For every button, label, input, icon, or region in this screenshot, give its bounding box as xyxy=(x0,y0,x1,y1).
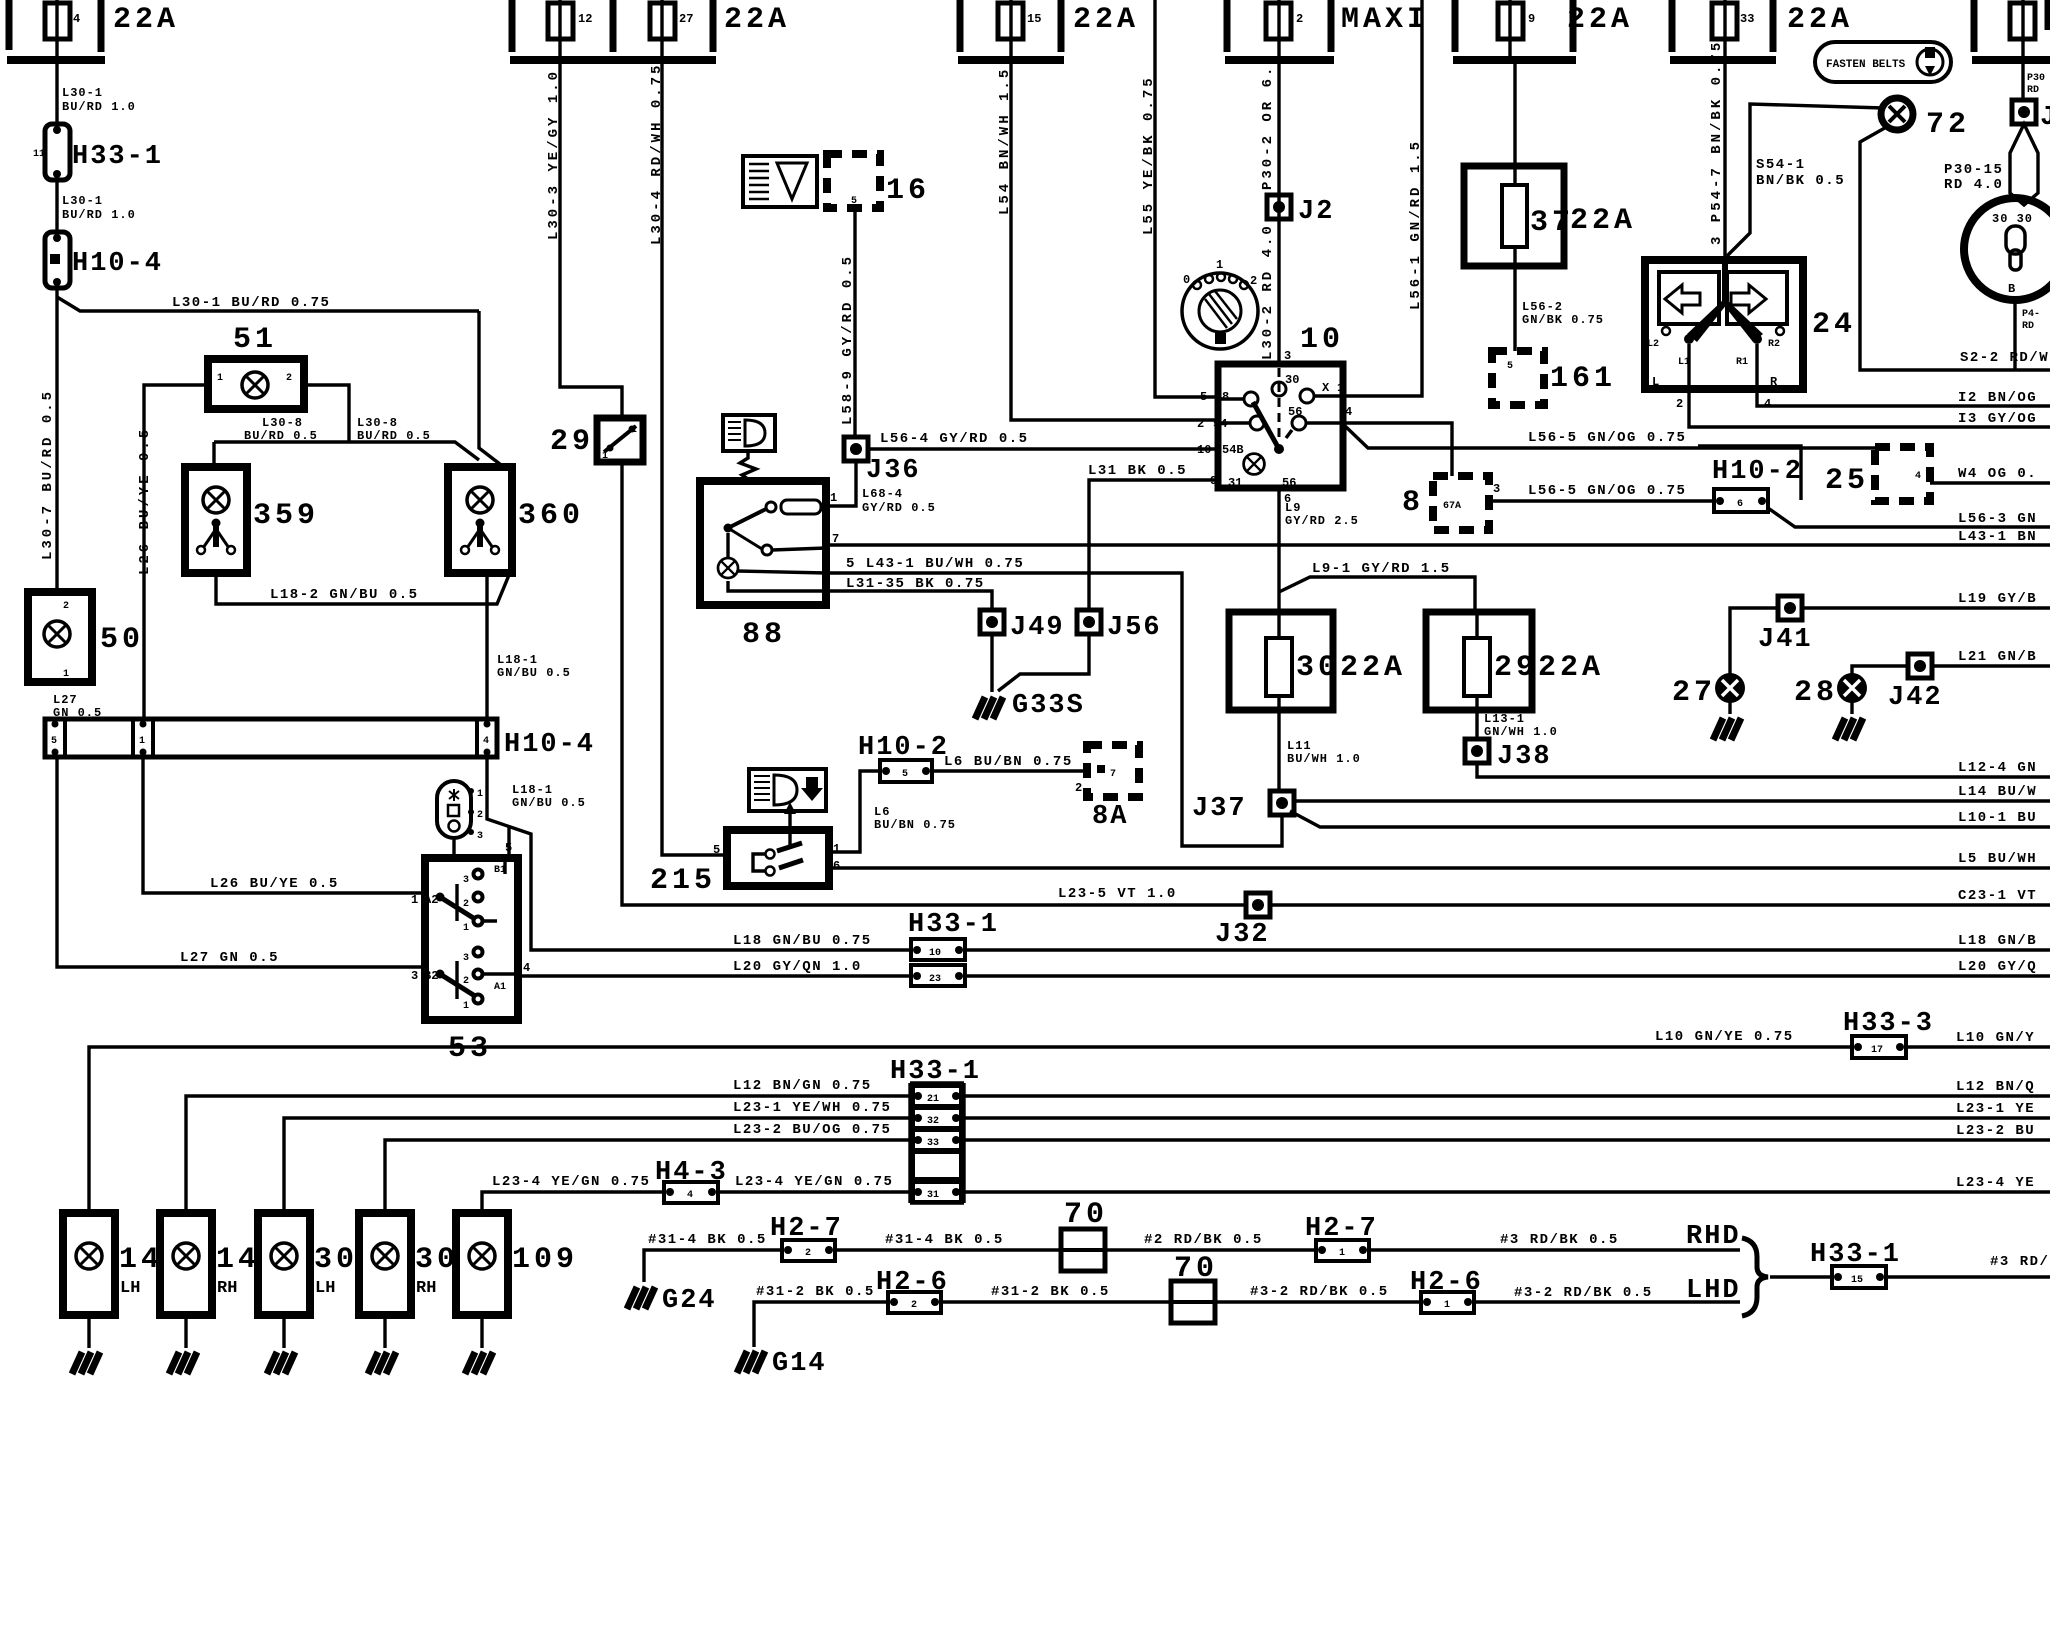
svg-text:4: 4 xyxy=(73,12,80,26)
svg-text:1: 1 xyxy=(63,669,69,680)
svg-text:L5 BU/WH: L5 BU/WH xyxy=(1958,851,2037,867)
svg-text:3: 3 xyxy=(411,969,418,983)
svg-text:L56-5 GN/OG 0.75: L56-5 GN/OG 0.75 xyxy=(1528,430,1686,446)
wire fuse15 to pin54 xyxy=(1011,60,1218,420)
svg-text:30: 30 xyxy=(1296,651,1340,685)
svg-text:#2 RD/BK 0.5: #2 RD/BK 0.5 xyxy=(1144,1232,1263,1248)
svg-text:4: 4 xyxy=(687,1190,693,1201)
svg-text:23: 23 xyxy=(929,974,941,985)
svg-text:L27: L27 xyxy=(53,693,78,707)
svg-text:L18-1: L18-1 xyxy=(512,783,553,797)
svg-text:L6: L6 xyxy=(874,805,890,819)
svg-text:R: R xyxy=(1770,375,1778,389)
connector 16 xyxy=(827,154,930,208)
switch 215 xyxy=(650,830,840,898)
svg-text:RD: RD xyxy=(2027,85,2039,96)
bus L12-4 from J38 xyxy=(1477,763,2050,777)
svg-text:L9-1 GY/RD 1.5: L9-1 GY/RD 1.5 xyxy=(1312,561,1451,577)
lamp 50 xyxy=(28,592,144,682)
fuse box 30 22A xyxy=(1229,612,1406,793)
svg-text:6: 6 xyxy=(833,859,840,873)
fuse bracket 9 22A xyxy=(1453,0,1633,60)
svg-text:L19 GY/B: L19 GY/B xyxy=(1958,591,2037,607)
svg-text:2: 2 xyxy=(463,976,469,987)
svg-text:J36: J36 xyxy=(866,456,921,486)
svg-text:109: 109 xyxy=(512,1243,578,1277)
svg-text:W4 OG 0.: W4 OG 0. xyxy=(1958,466,2037,482)
svg-text:RHD: RHD xyxy=(1686,1222,1741,1252)
wire 25 to W4 bus xyxy=(1930,481,2050,484)
connector H2-7 a xyxy=(770,1214,843,1261)
svg-text:B: B xyxy=(2008,282,2016,296)
svg-text:3: 3 xyxy=(1284,349,1291,363)
wire 72 left to 24 pin3 xyxy=(1727,104,1884,256)
wire L26 to switch 53 xyxy=(143,757,425,893)
bus L20 right xyxy=(965,974,2050,977)
svg-text:5: 5 xyxy=(1507,361,1513,372)
svg-text:L23-4 YE: L23-4 YE xyxy=(1956,1175,2035,1191)
svg-text:5: 5 xyxy=(851,196,857,207)
brace RHD/LHD xyxy=(1742,1238,1768,1316)
junction J36 xyxy=(844,437,868,461)
svg-text:22A: 22A xyxy=(113,3,179,37)
svg-text:54B: 54B xyxy=(1222,443,1244,457)
svg-text:5 L43-1 BU/WH 0.75: 5 L43-1 BU/WH 0.75 xyxy=(846,556,1024,572)
svg-text:L56-5 GN/OG 0.75: L56-5 GN/OG 0.75 xyxy=(1528,483,1686,499)
wire J49 to ground xyxy=(990,634,993,692)
svg-text:#31-2 BK 0.5: #31-2 BK 0.5 xyxy=(991,1284,1110,1300)
wire fuse4 down xyxy=(55,60,58,124)
svg-text:2: 2 xyxy=(1296,12,1303,26)
svg-text:#3-2 RD/BK 0.5: #3-2 RD/BK 0.5 xyxy=(1250,1284,1389,1300)
svg-text:L30-1: L30-1 xyxy=(62,194,103,208)
lamp 14 LH xyxy=(63,1213,163,1374)
wire 359 bottom to 360 xyxy=(216,573,509,604)
wire P54-7 down to 24 xyxy=(1723,60,1726,260)
svg-text:S54-1: S54-1 xyxy=(1756,157,1806,173)
svg-text:RD 4.0: RD 4.0 xyxy=(1944,177,2003,193)
svg-text:3 P54-7 BN/BK 0.75: 3 P54-7 BN/BK 0.75 xyxy=(1709,40,1725,245)
wire 88 bottom to J49 xyxy=(826,591,992,611)
junction J3 xyxy=(2012,100,2036,124)
svg-text:LH: LH xyxy=(120,1279,140,1298)
lamp 27 xyxy=(1730,608,1778,674)
svg-text:GN/BU 0.5: GN/BU 0.5 xyxy=(512,796,586,810)
up arrow xyxy=(788,812,791,830)
wire 16 to J36 xyxy=(853,208,856,438)
fuse box 37 22A xyxy=(1513,60,1516,351)
svg-text:2: 2 xyxy=(463,899,469,910)
svg-text:L31-35 BK 0.75: L31-35 BK 0.75 xyxy=(846,576,985,592)
label L30-1 b xyxy=(55,180,58,232)
svg-text:L30-1: L30-1 xyxy=(62,86,103,100)
ignition switch B xyxy=(1964,198,2050,300)
ground xyxy=(1713,718,1741,740)
svg-text:L26 BU/YE 0.5: L26 BU/YE 0.5 xyxy=(210,876,339,892)
bus L18 right xyxy=(965,948,2050,951)
connector H33-1 pins 10/23 xyxy=(908,910,999,986)
svg-text:L10 GN/Y: L10 GN/Y xyxy=(1956,1030,2035,1046)
svg-text:161: 161 xyxy=(1550,362,1616,396)
connector H33-1 lower xyxy=(890,1057,981,1203)
svg-text:22A: 22A xyxy=(1073,3,1139,37)
svg-text:GY/RD 2.5: GY/RD 2.5 xyxy=(1285,514,1359,528)
diode box 29 xyxy=(550,418,643,462)
svg-text:1: 1 xyxy=(1337,381,1344,395)
svg-text:17: 17 xyxy=(1871,1045,1883,1056)
lamp 360 xyxy=(448,467,584,573)
svg-text:360: 360 xyxy=(518,499,584,533)
svg-text:8: 8 xyxy=(1402,486,1424,520)
svg-text:37: 37 xyxy=(1530,206,1574,240)
svg-text:2: 2 xyxy=(477,810,483,821)
svg-text:25: 25 xyxy=(1825,464,1869,498)
svg-text:72: 72 xyxy=(1926,108,1970,142)
connector H2-6 a xyxy=(876,1268,949,1313)
svg-text:L68-4: L68-4 xyxy=(862,487,903,501)
svg-text:5: 5 xyxy=(713,843,720,857)
svg-text:RH: RH xyxy=(416,1279,436,1298)
junction J56 xyxy=(1077,610,1101,634)
svg-text:L20 GY/QN 1.0: L20 GY/QN 1.0 xyxy=(733,959,862,975)
svg-text:51: 51 xyxy=(233,323,277,357)
svg-text:5: 5 xyxy=(51,736,57,747)
wire lamp14RH to ground xyxy=(184,1315,187,1348)
svg-text:BU/RD 1.0: BU/RD 1.0 xyxy=(62,208,136,222)
svg-text:L56-3 GN: L56-3 GN xyxy=(1958,511,2037,527)
svg-text:H33-1: H33-1 xyxy=(72,142,163,172)
ground xyxy=(267,1352,295,1374)
wire H10-4 pin4 down to 53 / H33-1 xyxy=(487,757,911,950)
svg-text:21: 21 xyxy=(927,1094,939,1105)
turn signal switch 24 xyxy=(1645,260,1856,389)
svg-text:15: 15 xyxy=(1027,12,1041,26)
svg-text:50: 50 xyxy=(100,623,144,657)
wire pin56 diagonal to L56-5 bus xyxy=(1345,426,1875,448)
connector 8A xyxy=(1075,745,1139,832)
svg-text:LH: LH xyxy=(315,1279,335,1298)
svg-text:J37: J37 xyxy=(1192,794,1247,824)
junction J37 xyxy=(1270,791,1294,815)
svg-text:1: 1 xyxy=(602,451,608,462)
bus 215 pin6 L5 xyxy=(829,866,2050,869)
wire L31 from switch10 through J56 xyxy=(998,480,1218,691)
svg-text:J41: J41 xyxy=(1758,625,1813,655)
svg-text:22A: 22A xyxy=(1787,3,1853,37)
svg-text:22A: 22A xyxy=(1570,204,1636,238)
fuse bracket 33 22A xyxy=(1670,0,1853,60)
svg-text:33: 33 xyxy=(927,1138,939,1149)
svg-text:H10-2: H10-2 xyxy=(1712,457,1803,487)
ground xyxy=(368,1352,396,1374)
svg-text:L23-1 YE: L23-1 YE xyxy=(1956,1101,2035,1117)
svg-text:10: 10 xyxy=(929,948,941,959)
bus L10-1 from J37 xyxy=(1290,811,2050,827)
svg-text:12: 12 xyxy=(578,12,592,26)
svg-text:27: 27 xyxy=(1672,676,1716,710)
svg-text:10: 10 xyxy=(1300,323,1344,357)
svg-text:I3 GY/OG: I3 GY/OG xyxy=(1958,411,2037,427)
svg-text:5: 5 xyxy=(902,769,908,780)
lamp 14 RH xyxy=(160,1213,260,1374)
svg-text:30: 30 xyxy=(1285,373,1299,387)
svg-text:L23-1 YE/WH 0.75: L23-1 YE/WH 0.75 xyxy=(733,1100,891,1116)
svg-text:#31-2 BK 0.5: #31-2 BK 0.5 xyxy=(756,1284,875,1300)
svg-text:H10-4: H10-4 xyxy=(72,249,163,279)
svg-text:1: 1 xyxy=(477,789,483,800)
svg-text:X: X xyxy=(1322,381,1330,395)
svg-text:G33S: G33S xyxy=(1012,691,1085,721)
svg-text:22A: 22A xyxy=(1538,651,1604,685)
wire 51 pin2 to 359/360 xyxy=(214,385,479,467)
svg-text:#3-2 RD/BK 0.5: #3-2 RD/BK 0.5 xyxy=(1514,1285,1653,1301)
ground xyxy=(169,1352,197,1374)
svg-text:1: 1 xyxy=(139,736,145,747)
riser wires xyxy=(89,1047,1852,1213)
connector H2-6 b xyxy=(1410,1268,1483,1313)
connector H33-1 top xyxy=(33,124,163,180)
svg-text:1: 1 xyxy=(1216,258,1223,272)
svg-text:30: 30 xyxy=(314,1243,358,1277)
svg-text:#31-4 BK 0.5: #31-4 BK 0.5 xyxy=(885,1232,1004,1248)
svg-text:L10-1 BU: L10-1 BU xyxy=(1958,810,2037,826)
connector 161 xyxy=(1492,351,1616,405)
svg-text:J49: J49 xyxy=(1010,613,1065,643)
wire X1 up to top xyxy=(1343,0,1422,396)
svg-text:14: 14 xyxy=(216,1243,260,1277)
ground xyxy=(1835,718,1863,740)
headlamp levelling icon 215 xyxy=(749,769,826,811)
wire H10-2b to L56-3 bus xyxy=(1768,508,2050,527)
svg-text:L12 BN/GN 0.75: L12 BN/GN 0.75 xyxy=(733,1078,872,1094)
fuse bracket 4 22A xyxy=(7,0,179,60)
svg-text:C23-1 VT: C23-1 VT xyxy=(1958,888,2037,904)
switch 53 xyxy=(411,841,530,1066)
svg-text:29: 29 xyxy=(550,425,594,459)
svg-text:7: 7 xyxy=(1110,769,1116,780)
svg-text:6: 6 xyxy=(1737,499,1743,510)
svg-text:53: 53 xyxy=(448,1032,492,1066)
svg-text:L11: L11 xyxy=(1287,739,1312,753)
svg-text:1: 1 xyxy=(830,491,837,505)
bus 88 pin7 L43-1 xyxy=(826,543,2050,546)
svg-text:3: 3 xyxy=(1493,482,1500,496)
wire 24 pin4 to I2 bus xyxy=(1757,389,2050,406)
svg-text:L30-2 RD 4.0: L30-2 RD 4.0 xyxy=(1260,223,1276,360)
svg-text:L30-7 BU/RD 0.5: L30-7 BU/RD 0.5 xyxy=(40,389,56,560)
wire 53 pin4 to H33-1 pin23 xyxy=(518,974,911,977)
svg-text:27: 27 xyxy=(679,12,693,26)
svg-text:4: 4 xyxy=(483,736,489,747)
svg-text:1: 1 xyxy=(411,893,418,907)
wire lamp14LH to ground xyxy=(87,1315,90,1348)
svg-text:28: 28 xyxy=(1794,676,1838,710)
svg-text:J42: J42 xyxy=(1888,683,1943,713)
wire J36 to switch10 pin54B xyxy=(868,447,1218,450)
fuse bracket 12 / 27 22A xyxy=(510,0,790,60)
svg-text:1: 1 xyxy=(217,373,223,384)
svg-text:L56-4 GY/RD 0.5: L56-4 GY/RD 0.5 xyxy=(880,431,1029,447)
junction J42 xyxy=(1908,654,1932,678)
svg-text:J38: J38 xyxy=(1497,742,1552,772)
svg-text:67A: 67A xyxy=(1443,501,1461,512)
switch 10 box xyxy=(1197,323,1352,506)
indicator cluster oval xyxy=(437,781,483,842)
fuse bracket 15 22A xyxy=(958,0,1139,60)
junction J38 xyxy=(1465,739,1489,763)
connector H2-7 b xyxy=(1305,1214,1378,1261)
bus L14 from J37 xyxy=(1294,799,2050,802)
svg-text:L21 GN/B: L21 GN/B xyxy=(1958,649,2037,665)
svg-text:L23-5 VT 1.0: L23-5 VT 1.0 xyxy=(1058,886,1177,902)
junction J2 xyxy=(1267,195,1291,219)
svg-text:#31-4 BK 0.5: #31-4 BK 0.5 xyxy=(648,1232,767,1248)
svg-text:2: 2 xyxy=(631,425,637,436)
svg-text:4: 4 xyxy=(523,961,530,975)
junction J41 xyxy=(1778,596,1802,620)
svg-text:RD: RD xyxy=(2022,321,2034,332)
connector 70 b xyxy=(1171,1252,1218,1323)
svg-text:R1: R1 xyxy=(1736,357,1748,368)
svg-text:56: 56 xyxy=(1282,476,1296,490)
wire pin56 to 67A xyxy=(1343,423,1452,476)
cable lug xyxy=(2010,124,2038,205)
svg-text:2: 2 xyxy=(1676,397,1683,411)
svg-text:BU/RD 0.5: BU/RD 0.5 xyxy=(357,429,431,443)
wire 88 pin1 to J36 xyxy=(826,461,856,506)
svg-text:G14: G14 xyxy=(772,1349,827,1379)
svg-text:L13-1: L13-1 xyxy=(1484,712,1525,726)
wire fuse12 to box29 xyxy=(560,60,622,418)
wire 29 down to J32 line xyxy=(622,462,1246,905)
connector H10-2 b xyxy=(1698,446,1803,512)
svg-text:H10-4: H10-4 xyxy=(504,730,595,760)
wire lamp109 to ground xyxy=(480,1315,483,1348)
svg-text:2: 2 xyxy=(1250,274,1257,288)
fuse bracket 2 MAXI xyxy=(1225,0,1429,60)
svg-text:J: J xyxy=(2040,103,2050,133)
connector 25 xyxy=(1825,447,1930,501)
connector H33-1 pin15 xyxy=(1810,1240,1901,1288)
svg-text:L14 BU/W: L14 BU/W xyxy=(1958,784,2037,800)
svg-text:15: 15 xyxy=(1851,1275,1863,1286)
branch L9-1 to box 29A xyxy=(1279,577,1475,612)
svg-text:1: 1 xyxy=(1444,1300,1450,1311)
svg-text:GN/BU 0.5: GN/BU 0.5 xyxy=(497,666,571,680)
svg-text:BN/BK 0.5: BN/BK 0.5 xyxy=(1756,173,1845,189)
wire L30-1 drop to 360 xyxy=(479,311,505,468)
svg-text:8: 8 xyxy=(1222,390,1229,404)
svg-text:1: 1 xyxy=(463,923,469,934)
svg-text:22A: 22A xyxy=(1567,3,1633,37)
svg-text:2: 2 xyxy=(911,1300,917,1311)
svg-text:BU/BN 0.75: BU/BN 0.75 xyxy=(874,818,956,832)
lamp 28 xyxy=(1852,666,1908,674)
wire 24 pin2 to I3 bus xyxy=(1689,389,2050,427)
junction J32 xyxy=(1246,893,1270,917)
svg-text:33: 33 xyxy=(1740,12,1754,26)
svg-text:30 30: 30 30 xyxy=(1992,212,2033,226)
connector H33-3 xyxy=(1843,1009,1934,1058)
svg-text:L56-2: L56-2 xyxy=(1522,300,1563,314)
lamp 30 RH xyxy=(359,1213,459,1374)
ground G14 xyxy=(737,1351,765,1373)
svg-text:8A: 8A xyxy=(1092,802,1128,832)
wire lamp30LH to ground xyxy=(282,1315,285,1348)
connector 8 / 67A xyxy=(1402,476,1500,530)
svg-text:L18 GN/B: L18 GN/B xyxy=(1958,933,2037,949)
wire H10-2 to 8A xyxy=(932,769,1087,772)
svg-text:16: 16 xyxy=(886,174,930,208)
connector 70 a xyxy=(1061,1198,1108,1271)
junction J49 xyxy=(980,610,1004,634)
svg-text:29: 29 xyxy=(1494,651,1538,685)
wire lamp30RH to ground xyxy=(383,1315,386,1348)
connector H10-2 a xyxy=(858,733,949,782)
lamp 30 LH xyxy=(258,1213,358,1374)
svg-text:215: 215 xyxy=(650,864,716,898)
svg-text:L30-8: L30-8 xyxy=(357,416,398,430)
wire 88 pin5 to J37 xyxy=(826,573,1282,846)
svg-text:2: 2 xyxy=(805,1248,811,1259)
svg-text:3: 3 xyxy=(463,875,469,886)
wire switch10 pin6 down xyxy=(1277,488,1280,612)
svg-text:3: 3 xyxy=(463,953,469,964)
fasten belts pill xyxy=(1815,42,1951,82)
bus C23-1 right xyxy=(1270,903,2050,906)
svg-text:L43-1 BN: L43-1 BN xyxy=(1958,529,2037,545)
svg-text:LHD: LHD xyxy=(1686,1276,1741,1306)
svg-text:L12 BN/Q: L12 BN/Q xyxy=(1956,1079,2035,1095)
ground xyxy=(72,1352,100,1374)
svg-text:9: 9 xyxy=(1528,12,1535,26)
svg-text:BU/RD 1.0: BU/RD 1.0 xyxy=(62,100,136,114)
wire top right fuse down xyxy=(2021,60,2024,101)
relay 88 xyxy=(700,481,839,652)
svg-text:L30-8: L30-8 xyxy=(262,416,303,430)
wire down + branch xyxy=(55,288,58,592)
svg-text:GN/WH 1.0: GN/WH 1.0 xyxy=(1484,725,1558,739)
svg-text:P4-: P4- xyxy=(2022,309,2040,320)
svg-text:BU/WH 1.0: BU/WH 1.0 xyxy=(1287,752,1361,766)
wire 67A pin3 to H10-2 b xyxy=(1489,499,1714,502)
svg-text:FASTEN BELTS: FASTEN BELTS xyxy=(1826,59,1906,71)
svg-text:S2-2 RD/W: S2-2 RD/W xyxy=(1960,350,2049,366)
wire fuse27 to 215 pin5 xyxy=(662,60,727,855)
svg-text:#3 RD/BK 0.5: #3 RD/BK 0.5 xyxy=(1500,1232,1619,1248)
svg-text:0: 0 xyxy=(1183,273,1190,287)
svg-text:J32: J32 xyxy=(1215,920,1270,950)
connector H10-4 long xyxy=(45,719,595,760)
fuse box 29 22A xyxy=(1426,612,1604,740)
svg-text:L18-2 GN/BU 0.5: L18-2 GN/BU 0.5 xyxy=(270,587,419,603)
svg-text:31: 31 xyxy=(1228,476,1242,490)
ground G33S xyxy=(975,697,1003,719)
svg-text:L10 GN/YE 0.75: L10 GN/YE 0.75 xyxy=(1655,1029,1794,1045)
lamp 359 xyxy=(185,467,319,573)
connector H4-3 xyxy=(655,1158,728,1203)
svg-text:J2: J2 xyxy=(1298,197,1334,227)
svg-text:2: 2 xyxy=(286,373,292,384)
svg-text:L31 BK 0.5: L31 BK 0.5 xyxy=(1088,463,1187,479)
svg-text:88: 88 xyxy=(742,618,786,652)
wire 215 pin1 to H10-2 xyxy=(829,771,880,852)
svg-text:I2 BN/OG: I2 BN/OG xyxy=(1958,390,2037,406)
svg-text:L12-4 GN: L12-4 GN xyxy=(1958,760,2037,776)
lamp 51 xyxy=(208,323,304,409)
svg-text:L27 GN 0.5: L27 GN 0.5 xyxy=(180,950,279,966)
wire lamp27 to ground xyxy=(1728,702,1731,714)
